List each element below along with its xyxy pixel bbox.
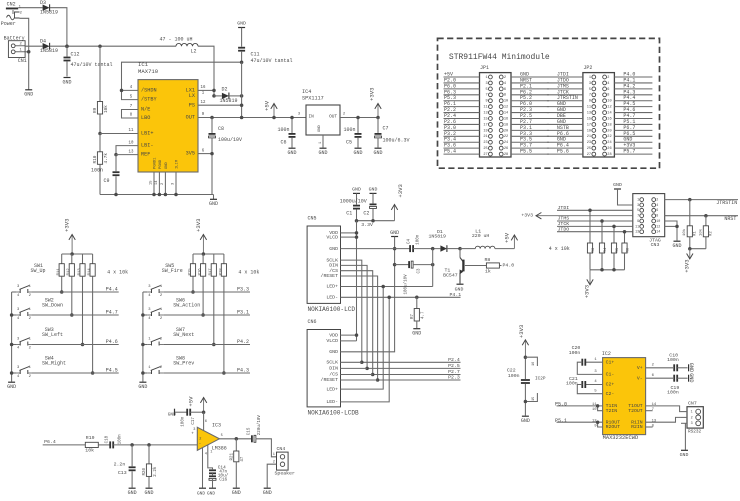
svg-text:100n: 100n — [344, 127, 356, 133]
svg-text:100n: 100n — [566, 381, 578, 387]
wire JP1 pin 8 net P6.2 — [511, 94, 549, 96]
svg-text:28: 28 — [504, 153, 508, 157]
ground C19 rotated — [688, 373, 694, 382]
svg-text:L2: L2 — [191, 49, 197, 55]
capacitor C17 — [175, 409, 204, 427]
svg-text:VLCD: VLCD — [326, 338, 338, 344]
junction R18 to row — [222, 371, 226, 375]
svg-text:SW_Up: SW_Up — [31, 268, 46, 274]
svg-text:OUT: OUT — [329, 114, 337, 119]
resistor R14 — [88, 254, 95, 373]
switch SW2 SW_Down — [16, 298, 63, 321]
svg-text:LED-: LED- — [326, 399, 338, 405]
wire SW8 row to net P4.3 — [163, 372, 250, 374]
svg-text:GND: GND — [207, 492, 215, 497]
wire JP2 pin 2 net P4.0 — [614, 76, 652, 78]
junction C17 +5V — [202, 410, 206, 414]
svg-text:SW_Down: SW_Down — [42, 303, 63, 309]
wire JP1 pin 4 net NRST — [511, 82, 549, 84]
ground T1 emitter — [457, 283, 464, 285]
wire amp output — [219, 438, 252, 440]
svg-text:7: 7 — [486, 94, 488, 98]
supply +3V3 switch bank SW1 — [64, 219, 76, 254]
capacitor C1 — [340, 193, 367, 220]
svg-text:R12: R12 — [67, 268, 71, 276]
wire regulator output — [340, 117, 378, 119]
svg-text:1: 1 — [273, 453, 275, 457]
wire pullup rail — [193, 253, 224, 255]
wire base to R8 — [465, 265, 487, 267]
resistor R7 — [411, 296, 425, 328]
wire JP2 pin 8 net P4.3 — [614, 94, 652, 96]
svg-text:47u/10V tantal: 47u/10V tantal — [251, 58, 293, 64]
svg-text:28: 28 — [607, 153, 611, 157]
svg-text:GND: GND — [209, 201, 218, 207]
wire gain pin to C14 — [208, 445, 213, 469]
svg-text:NOKIA6100-LCD: NOKIA6100-LCD — [308, 306, 356, 313]
wire JP1 pin 27 net P5.4 — [444, 153, 480, 155]
svg-text:15: 15 — [587, 117, 591, 121]
wire NE LBO bracket — [122, 110, 139, 119]
svg-text:T2OUT: T2OUT — [628, 408, 643, 414]
junction R14 to row — [91, 371, 95, 375]
svg-text:JTRSTIN: JTRSTIN — [716, 200, 737, 206]
svg-text:14: 14 — [155, 180, 159, 185]
junction R21 — [235, 437, 239, 441]
inductor L2 — [160, 36, 199, 54]
svg-text:+3V3: +3V3 — [518, 325, 525, 338]
svg-text:5: 5 — [637, 209, 639, 213]
ground MAX710 — [213, 195, 215, 200]
ground C16 — [209, 487, 216, 489]
svg-text:100n: 100n — [508, 373, 520, 379]
svg-text:7: 7 — [589, 94, 591, 98]
svg-text:R19: R19 — [86, 435, 95, 441]
svg-text:220 uH: 220 uH — [472, 233, 490, 239]
junction collector — [458, 247, 462, 251]
svg-text:1N5819: 1N5819 — [40, 48, 58, 54]
svg-text:R2OUT: R2OUT — [606, 424, 621, 430]
wire VDD VLCD supply column — [356, 221, 358, 341]
wire bottom ground rail — [100, 194, 214, 196]
junction REF node — [114, 153, 118, 157]
svg-text:P4.5: P4.5 — [106, 368, 118, 374]
wire JP2 pin 28 net P5.7 — [614, 153, 652, 155]
wire +3V3 into JTAG pin 7 — [536, 213, 633, 219]
wire LED+ CN5 to CN6 — [341, 286, 433, 288]
svg-text:C7: C7 — [383, 126, 389, 132]
connector JP1 header — [480, 65, 512, 157]
svg-text:4 x 10k: 4 x 10k — [549, 246, 570, 252]
svg-text:9: 9 — [637, 220, 639, 224]
wire LX1 pin16 — [198, 89, 214, 91]
svg-text:13: 13 — [129, 150, 134, 154]
switch SW5 SW_Fire — [147, 263, 183, 298]
capacitor C18 — [105, 434, 122, 449]
wire /RESET CN5 to CN6 to net P2.3 — [341, 276, 461, 380]
wire CN2 pin2 to battery minus — [20, 18, 29, 52]
svg-text:1: 1 — [637, 199, 639, 203]
svg-text:14: 14 — [607, 112, 611, 116]
svg-text:14: 14 — [656, 231, 660, 235]
svg-text:D4: D4 — [40, 38, 46, 44]
svg-text:1: 1 — [210, 451, 212, 455]
supply +3V3 regulator output — [369, 88, 382, 118]
wire LBI- REF tie — [116, 146, 138, 155]
wire T1IN T2IN to net P5.0 — [557, 405, 603, 407]
junction output node top — [240, 60, 244, 64]
junction 3V5 — [210, 152, 214, 156]
wire JP1 pin 19 net P3.0 — [444, 129, 480, 131]
junction C1 C2 rail — [355, 219, 359, 223]
ground R20 — [144, 488, 153, 496]
svg-text:GND: GND — [369, 187, 378, 193]
svg-text:P5.1: P5.1 — [555, 418, 567, 424]
STR911FW44 Minimodule outline — [438, 38, 660, 168]
svg-text:1N5819: 1N5819 — [220, 98, 238, 104]
svg-text:VLCD: VLCD — [326, 234, 338, 240]
svg-text:13: 13 — [483, 112, 487, 116]
svg-text:CN5: CN5 — [308, 216, 317, 222]
junction OUT / C8 — [210, 116, 214, 120]
wire R8 to net P4.0 — [499, 265, 501, 267]
switch SW8 SW_Prev — [147, 356, 194, 374]
svg-text:25: 25 — [483, 147, 487, 151]
svg-text:P5.5: P5.5 — [520, 149, 532, 155]
svg-text:5: 5 — [221, 434, 223, 438]
svg-text:25: 25 — [587, 147, 591, 151]
wire CN7 ground pin 3 — [684, 423, 686, 450]
wire JP2 pin 5 net JTMS — [547, 88, 583, 90]
svg-text:GND: GND — [62, 79, 71, 85]
junction boost output — [431, 247, 435, 251]
svg-text:P6.4: P6.4 — [44, 439, 56, 445]
svg-text:2.2n: 2.2n — [114, 462, 126, 468]
svg-text:Battery: Battery — [4, 36, 25, 42]
supply +5V amp — [188, 396, 207, 412]
svg-text:/CS: /CS — [329, 268, 338, 274]
svg-text:3: 3 — [589, 82, 591, 86]
ground switch bank — [138, 382, 147, 390]
svg-text:20: 20 — [504, 129, 508, 133]
supply +3V3 RS232 — [518, 325, 529, 358]
junction R17 to row — [212, 343, 216, 347]
wire /CS CN5 to CN6 to net P2.7 — [341, 271, 461, 375]
supply +5V — [263, 100, 277, 117]
ground C13 — [128, 488, 137, 496]
svg-text:10: 10 — [656, 220, 660, 224]
junction R9 top — [98, 44, 102, 48]
svg-text:P4.1: P4.1 — [450, 292, 462, 298]
svg-text:+3V3: +3V3 — [195, 219, 202, 232]
svg-text:SW_Left: SW_Left — [42, 332, 63, 338]
capacitor C11 — [238, 28, 292, 65]
svg-text:GND: GND — [688, 373, 694, 382]
svg-text:10k: 10k — [682, 228, 687, 236]
junction SHDN bracket — [120, 89, 124, 93]
svg-text:100n: 100n — [278, 127, 290, 133]
svg-text:C2+: C2+ — [606, 382, 615, 388]
wire CN2 pin1 to D3 — [18, 7, 42, 9]
svg-text:R2IN: R2IN — [631, 424, 643, 430]
capacitor C13 — [114, 445, 136, 488]
svg-text:N/E: N/E — [141, 107, 150, 113]
svg-text:GND: GND — [165, 161, 169, 169]
svg-text:11: 11 — [129, 129, 134, 133]
svg-text:LBI+: LBI+ — [141, 131, 153, 137]
supply +5V boost — [504, 232, 518, 248]
svg-text:20: 20 — [607, 129, 611, 133]
inductor L1 — [472, 228, 495, 248]
wire JTAG net JTDO — [557, 231, 633, 233]
svg-text:LM386: LM386 — [212, 446, 227, 452]
svg-text:NOKIA6100-LCDB: NOKIA6100-LCDB — [308, 410, 360, 417]
wire JP1 pin 20 net P3.1 — [511, 129, 549, 131]
wire LBI+ to pin 11 — [100, 133, 138, 135]
svg-text:D3: D3 — [40, 0, 46, 6]
svg-text:GND: GND — [521, 418, 530, 424]
svg-text:/RESET: /RESET — [321, 273, 339, 279]
svg-text:R5: R5 — [616, 247, 620, 252]
switch SW1 SW_Up — [16, 263, 46, 298]
junction R15 to row — [191, 290, 195, 294]
junction C5 — [356, 116, 360, 120]
svg-text:P5.4: P5.4 — [444, 149, 456, 155]
connector CN7 RS232 — [681, 401, 703, 435]
svg-text:R4: R4 — [604, 247, 608, 252]
svg-text:SW_Prev: SW_Prev — [173, 361, 194, 367]
IC2 MAX3232 body — [592, 351, 657, 441]
svg-text:C18: C18 — [105, 435, 109, 443]
wire R2IN stub — [646, 426, 653, 428]
junction C6 — [290, 116, 294, 120]
wire ground to pin 3 — [618, 189, 633, 205]
wire JP1 pin 11 net P6.1 — [444, 106, 480, 108]
connector CN2 power jack — [6, 1, 23, 19]
svg-text:C1+: C1+ — [606, 359, 615, 365]
svg-text:GND: GND — [329, 246, 338, 252]
svg-text:+3V3: +3V3 — [64, 219, 71, 232]
svg-text:2: 2 — [504, 76, 506, 80]
svg-text:6: 6 — [504, 88, 506, 92]
svg-text:SW_Action: SW_Action — [173, 303, 200, 309]
junction R12 to row — [70, 313, 74, 317]
svg-text:8: 8 — [504, 94, 506, 98]
wire SHDN STBY bracket to output node — [122, 62, 242, 99]
svg-text:13: 13 — [587, 112, 591, 116]
svg-text:47u/10V tantal: 47u/10V tantal — [71, 62, 113, 68]
switch SW6 SW_Action — [147, 298, 200, 321]
wire R19 to C18 — [98, 444, 110, 446]
svg-text:16: 16 — [532, 362, 536, 366]
svg-text:17: 17 — [483, 123, 487, 127]
switch SW3 SW_Left — [16, 327, 63, 350]
svg-text:GND: GND — [672, 243, 681, 249]
svg-text:JP2: JP2 — [583, 65, 592, 71]
svg-text:/SHDN: /SHDN — [141, 88, 157, 94]
wire JTAG net JTCK — [557, 225, 633, 227]
wire CN6 VDD — [340, 334, 356, 336]
svg-text:C6: C6 — [281, 139, 287, 145]
svg-text:3: 3 — [637, 204, 639, 208]
wire NRST net — [665, 215, 738, 217]
wire 3V5 pin 6 — [198, 153, 212, 155]
capacitor C22 — [507, 368, 530, 416]
svg-text:P5.6: P5.6 — [557, 149, 569, 155]
svg-text:100n: 100n — [181, 416, 185, 427]
wire C15 to speaker — [256, 439, 277, 457]
svg-text:T2IN: T2IN — [606, 408, 618, 414]
svg-text:GND: GND — [455, 287, 464, 293]
svg-text:27: 27 — [587, 153, 591, 157]
wire JP1 pin 25 net P3.6 — [444, 147, 480, 149]
ground CN7 — [681, 449, 688, 451]
svg-text:13: 13 — [635, 231, 639, 235]
svg-text:+5V: +5V — [263, 100, 270, 111]
wire JP1 pin 7 net P6.3 — [444, 94, 480, 96]
svg-text:R10: R10 — [93, 155, 98, 163]
svg-text:/RESET: /RESET — [321, 377, 339, 383]
wire JP1 pin 18 net P2.7 — [511, 123, 549, 125]
svg-text:R14: R14 — [88, 268, 92, 276]
supply +3V3 pullups — [584, 270, 594, 299]
capacitor C14 — [209, 465, 227, 474]
wire SCLK CN5 to CN6 to net P2.4 — [341, 260, 461, 362]
wire REF to pin 13 — [116, 154, 138, 156]
svg-text:15: 15 — [532, 397, 536, 401]
svg-text:47 - 100 uH: 47 - 100 uH — [160, 36, 193, 42]
svg-text:12: 12 — [504, 106, 508, 110]
wire CN6 SCLK stub — [340, 361, 362, 363]
wire JP2 pin 24 net GND — [614, 141, 652, 143]
svg-text:3: 3 — [486, 82, 488, 86]
ground LCD upside symbol — [390, 230, 399, 236]
ground C17 left — [168, 409, 176, 418]
svg-text:CN2: CN2 — [7, 1, 16, 7]
wire JP1 pin 3 net P2.0 — [444, 82, 480, 84]
svg-text:LBI-: LBI- — [141, 143, 153, 149]
ground C5 — [353, 148, 362, 156]
svg-text:18: 18 — [504, 123, 508, 127]
junction D2 output — [240, 94, 244, 98]
capacitor C9 — [91, 155, 120, 195]
resistor R13 — [78, 254, 85, 345]
wire 3.3V rail — [357, 220, 395, 222]
resistor R21 — [231, 439, 245, 488]
resistor R1 — [682, 198, 697, 249]
svg-text:C3: C3 — [417, 268, 421, 274]
svg-text:R8: R8 — [485, 257, 491, 263]
svg-text:4: 4 — [205, 453, 207, 457]
svg-text:R11: R11 — [57, 268, 61, 276]
svg-text:P4.6: P4.6 — [106, 339, 118, 345]
ground C11 — [238, 27, 245, 29]
svg-text:LED+: LED+ — [326, 386, 338, 392]
supply +3V3 switch bank SW5 — [195, 219, 207, 254]
svg-text:100n: 100n — [118, 434, 122, 445]
svg-text:12: 12 — [201, 101, 206, 105]
svg-text:GND: GND — [7, 384, 16, 390]
resistor R9 — [93, 46, 109, 133]
svg-text:GND: GND — [613, 182, 622, 188]
svg-text:GND: GND — [329, 349, 338, 355]
svg-text:7: 7 — [652, 408, 654, 412]
wire JP1 pin 23 net P3.4 — [444, 141, 480, 143]
wire D1 to collector node — [447, 248, 460, 250]
ground R21 — [232, 488, 241, 496]
svg-text:IC4: IC4 — [302, 89, 311, 95]
svg-text:+3V3: +3V3 — [369, 88, 376, 101]
wire JP2 pin 19 net NSTB — [547, 129, 583, 131]
diode D3 — [40, 0, 58, 15]
svg-text:C8: C8 — [218, 126, 224, 132]
ground switch bank — [7, 382, 16, 390]
svg-text:16: 16 — [504, 117, 508, 121]
connector CN5 LCD — [307, 216, 355, 313]
wire R1OUT R2OUT to net P5.1 — [557, 421, 603, 423]
svg-text:14: 14 — [652, 403, 657, 407]
svg-text:13: 13 — [652, 420, 657, 424]
wire ground column to CN6 GND — [340, 237, 394, 352]
svg-text:GND: GND — [688, 363, 694, 372]
svg-text:P3.1: P3.1 — [237, 310, 249, 316]
ground C12 — [62, 78, 71, 86]
wire battery rail — [50, 45, 176, 47]
wire SW4 row to net P4.5 — [32, 372, 119, 374]
svg-text:P2.4: P2.4 — [448, 357, 460, 363]
junction PS — [240, 103, 244, 107]
svg-text:100n: 100n — [417, 234, 421, 245]
wire CN6 DIN stub — [340, 367, 367, 369]
diode D1 — [429, 229, 447, 252]
svg-text:26: 26 — [607, 147, 611, 151]
svg-text:DIN: DIN — [329, 263, 338, 269]
svg-text:LED-: LED- — [326, 295, 338, 301]
svg-text:14: 14 — [504, 112, 508, 116]
IC1 MAX710 body — [129, 61, 206, 194]
wire speaker to ground — [267, 464, 276, 487]
wire JP1 pin 13 net P2.2 — [444, 112, 480, 114]
wire JP2 pin 20 net P6.7 — [614, 129, 652, 131]
svg-text:RS232: RS232 — [688, 429, 702, 434]
wire JP2 pin 26 net +3V3 — [614, 147, 652, 149]
wire JP2 pin 27 net P5.6 — [547, 153, 583, 155]
svg-text:PS: PS — [189, 102, 195, 108]
wire JP2 pin 17 net GND — [547, 123, 583, 125]
svg-text:9: 9 — [589, 100, 591, 104]
wire PS pin 12 — [198, 104, 242, 106]
resistor R8 — [485, 257, 500, 274]
ground SPX1117 — [318, 148, 327, 156]
svg-text:+3V3: +3V3 — [584, 285, 591, 298]
switch SW4 SW_Right — [16, 356, 66, 379]
wire SHDN pin 4 — [122, 89, 139, 91]
wire D3 cathode down to battery rail — [50, 8, 67, 47]
wire JP2 pin 3 net JTDO — [547, 82, 583, 84]
svg-text:SW_Fire: SW_Fire — [162, 268, 183, 274]
svg-text:GND: GND — [128, 490, 137, 496]
resistor R12 — [67, 254, 74, 315]
svg-text:3V5: 3V5 — [186, 151, 195, 157]
svg-text:4 x 10k: 4 x 10k — [107, 269, 128, 275]
wire L2 to LX pins — [198, 46, 214, 96]
ground C2 — [370, 192, 377, 194]
junction R13 to row — [81, 343, 85, 347]
wire JP2 pin 4 net P4.1 — [614, 82, 652, 84]
svg-text:C4: C4 — [407, 238, 411, 244]
svg-text:JP1: JP1 — [480, 65, 489, 71]
svg-text:11: 11 — [635, 225, 639, 229]
